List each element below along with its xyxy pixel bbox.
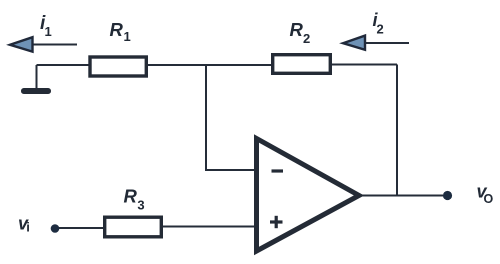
svg-text:R: R bbox=[110, 19, 124, 40]
svg-text:R: R bbox=[124, 186, 138, 207]
svg-text:2: 2 bbox=[377, 22, 384, 37]
svg-text:1: 1 bbox=[124, 29, 131, 44]
svg-text:1: 1 bbox=[45, 24, 52, 39]
svg-text:i: i bbox=[26, 220, 30, 235]
svg-text:O: O bbox=[484, 192, 494, 206]
svg-text:2: 2 bbox=[303, 31, 310, 46]
svg-text:3: 3 bbox=[137, 197, 144, 212]
svg-text:R: R bbox=[290, 19, 304, 40]
